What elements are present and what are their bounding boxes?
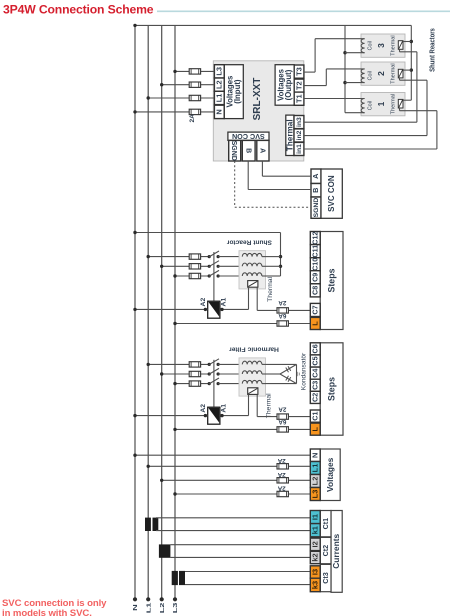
svg-text:L3: L3 — [172, 603, 179, 614]
label reactor number 3 — [376, 43, 386, 48]
wire L1 to coil (Shunt Reactor) — [218, 256, 242, 258]
coil of reactor 1 — [361, 99, 365, 113]
label Thermal Shunt Reactor — [267, 276, 274, 301]
wire step phase L2 (Shunt Reactor) — [160, 265, 209, 268]
svg-text:in3: in3 — [296, 117, 303, 127]
svg-text:Thermal: Thermal — [390, 63, 396, 84]
svg-text:2A: 2A — [277, 471, 285, 478]
svg-text:2A: 2A — [277, 485, 285, 492]
label 2A input fuse — [189, 114, 196, 123]
wire star collector vertical — [344, 25, 346, 112]
terminal I1 — [310, 511, 320, 524]
svg-text:A2: A2 — [200, 298, 207, 307]
svg-text:2: 2 — [376, 71, 386, 76]
label A2 (Harmonic Filter) — [200, 404, 207, 413]
wire step phase L3 (Shunt Reactor) — [173, 274, 209, 277]
label A1 (Shunt Reactor) — [220, 298, 227, 307]
wire voltage L2 — [160, 479, 310, 482]
CT1 on bus L1 — [145, 518, 158, 531]
bus L2 (vertical) — [161, 25, 163, 600]
label Thermal reactor 2 — [390, 63, 396, 84]
fuse step L2 (Shunt Reactor) — [189, 264, 200, 269]
wire I3 — [185, 571, 310, 573]
CT3 on bus L3 — [172, 571, 185, 585]
wire coil3 exit to star — [345, 52, 365, 54]
svg-text:L1: L1 — [145, 602, 152, 614]
svg-text:C10: C10 — [311, 258, 320, 271]
svg-text:T1: T1 — [294, 94, 303, 103]
wire B to external — [248, 161, 311, 190]
capacitor plates lower — [286, 376, 291, 382]
bus N (vertical) — [134, 25, 136, 600]
label A2 (Shunt Reactor) — [200, 298, 207, 307]
fuse voltage L3 — [277, 491, 288, 496]
thermal switch reactor 2 — [398, 69, 403, 78]
switch pole L2 (Harmonic Filter) — [208, 368, 220, 375]
svg-text:N: N — [215, 109, 224, 114]
svg-text:SGND: SGND — [313, 198, 320, 218]
box Steps strip lower — [320, 343, 343, 435]
svg-text:Ct1: Ct1 — [321, 518, 330, 530]
svg-text:N: N — [311, 453, 320, 458]
svg-text:L1: L1 — [311, 464, 320, 473]
fuse step L2 (Harmonic Filter) — [189, 371, 200, 376]
wire L3 to coil (Harmonic Filter) — [218, 383, 242, 385]
terminal k1 — [310, 524, 320, 537]
terminals Steps C6 C5 C4 C3 C2 — [310, 343, 320, 404]
op-unit SRL-XXT body — [213, 61, 303, 161]
wire L3 to L terminal (Shunt Reactor) — [173, 322, 310, 325]
wire reactor row 3 to star — [266, 275, 281, 277]
svg-text:k1: k1 — [311, 526, 320, 534]
svg-text:2A: 2A — [278, 299, 286, 306]
junction star coil2 — [343, 81, 346, 84]
wire reactor row 2 to star — [266, 265, 281, 267]
svg-text:2A: 2A — [277, 457, 285, 464]
svg-text:SGND: SGND — [230, 141, 237, 161]
switch pole L2 (Shunt Reactor) — [208, 261, 220, 268]
svg-text:Shunt Reactors: Shunt Reactors — [429, 28, 437, 72]
terminals Steps C12 C11 C10 C9 C8 — [310, 232, 320, 297]
wire T1 to coil1 — [304, 98, 365, 100]
svg-text:L2: L2 — [159, 603, 166, 614]
wire thermal1 pin to in terminal — [400, 108, 437, 149]
wire N to A2 (Harmonic Filter) — [133, 414, 207, 417]
wire L3 to coil (Shunt Reactor) — [218, 275, 242, 277]
wire I2 — [170, 544, 310, 546]
svg-text:C12: C12 — [311, 232, 320, 245]
box Ct2 — [320, 537, 331, 563]
coil Harmonic Filter row 3 — [242, 380, 265, 383]
thermal left pin (Harmonic Filter) — [248, 394, 250, 415]
wire N to A2 (Shunt Reactor) — [133, 308, 207, 311]
wire k2 — [170, 556, 310, 558]
label SRL-XXT — [252, 78, 263, 121]
svg-text:Thermal: Thermal — [286, 119, 295, 151]
bus L2 end dot — [160, 597, 164, 601]
label Shunt Reactor — [226, 238, 271, 245]
svg-text:(Input): (Input) — [233, 79, 242, 104]
fuse step L1 (Harmonic Filter) — [189, 362, 200, 367]
svg-text:in models with SVC.: in models with SVC. — [2, 608, 92, 616]
svg-text:T3: T3 — [294, 67, 303, 76]
wire star vertical section2 — [279, 233, 282, 277]
svg-text:L3: L3 — [311, 490, 320, 499]
svg-text:in1: in1 — [296, 144, 303, 154]
svg-text:A1: A1 — [220, 404, 227, 413]
contactor coil box (Shunt Reactor) — [208, 301, 220, 318]
box SVC CON external — [321, 169, 342, 218]
svg-text:Thermal: Thermal — [265, 393, 272, 418]
label bus L2 — [159, 603, 166, 614]
coil of reactor 3 — [361, 39, 365, 53]
bus L1 (vertical) — [147, 25, 149, 600]
terminals Thermal in3 in2 in1 — [294, 116, 304, 156]
wire A1 to thermal left pin (Harmonic Filter) — [220, 414, 249, 417]
wire I1 — [156, 517, 310, 519]
block body Shunt Reactor — [239, 251, 266, 289]
terminal C1 — [310, 410, 320, 422]
label bus L1 — [145, 602, 152, 614]
label 2A voltage L1 — [277, 457, 285, 464]
wire voltage N — [133, 454, 310, 457]
svg-text:A1: A1 — [220, 298, 227, 307]
svg-text:C4: C4 — [311, 369, 320, 378]
svg-text:L2: L2 — [311, 477, 320, 486]
contactor coil box (Harmonic Filter) — [208, 407, 220, 424]
label Coil 3 — [368, 41, 374, 50]
svg-text:B: B — [311, 188, 320, 193]
svg-text:C9: C9 — [311, 273, 320, 282]
label Shunt Reactors — [429, 28, 437, 72]
svg-text:L2: L2 — [215, 80, 224, 89]
fuse step L3 (Shunt Reactor) — [189, 273, 200, 278]
switch pole L3 (Shunt Reactor) — [208, 270, 220, 277]
wire filter bottom to capacitor — [266, 383, 297, 385]
coil Harmonic Filter row 1 — [242, 361, 265, 364]
label 2A step (Harmonic Filter) — [278, 405, 286, 412]
wire input L2 — [160, 83, 214, 86]
footnote SVC line1 — [2, 598, 107, 609]
box Ct1 — [320, 511, 331, 537]
junction star coil3 — [343, 51, 346, 54]
footnote SVC line2 — [2, 608, 92, 616]
wire thermal1 to common — [403, 99, 411, 101]
label box Thermal (inputs) — [286, 115, 295, 155]
svg-text:Thermal: Thermal — [390, 35, 396, 56]
coil Shunt Reactor row 2 — [242, 263, 265, 266]
terminal B internal — [242, 140, 255, 161]
label 6A step (Shunt Reactor) — [278, 312, 286, 319]
terminal A internal — [257, 140, 269, 161]
wire input L1 — [147, 96, 215, 99]
svg-text:N: N — [132, 604, 139, 611]
terminal SGND internal — [229, 140, 241, 161]
thermal left pin (Shunt Reactor) — [248, 287, 250, 309]
label Coil 1 — [368, 101, 374, 110]
terminal C7 — [310, 303, 320, 316]
svg-text:3P4W Connection Scheme: 3P4W Connection Scheme — [3, 3, 154, 17]
label Kondansator — [300, 352, 307, 390]
junction thermal2 common — [410, 68, 413, 71]
label Coil 2 — [368, 71, 374, 80]
svg-text:in2: in2 — [296, 130, 303, 140]
thermal switch reactor 1 — [398, 99, 403, 108]
box Currents strip — [331, 511, 342, 593]
svg-text:SVC CON: SVC CON — [327, 175, 336, 212]
svg-text:C5: C5 — [311, 356, 320, 365]
label Thermal Harmonic Filter — [265, 393, 272, 418]
wire voltage L3 — [173, 492, 310, 495]
capacitor tap marks — [298, 372, 300, 376]
label 2A voltage L2 — [277, 471, 285, 478]
coil of reactor 2 — [361, 69, 365, 83]
shunt reactor block 2 body — [361, 62, 405, 85]
terminal SGND external — [311, 197, 321, 218]
coil Shunt Reactor row 3 — [242, 273, 265, 276]
wire coil2 exit to star — [345, 82, 365, 84]
svg-text:Coil: Coil — [368, 71, 374, 80]
svg-text:SRL-XXT: SRL-XXT — [252, 78, 263, 121]
fuse step L1 (Shunt Reactor) — [189, 254, 200, 259]
fuse input L3 — [189, 69, 200, 74]
svg-text:Ct3: Ct3 — [321, 572, 330, 584]
svg-text:T2: T2 — [294, 81, 303, 90]
box Steps strip upper — [320, 232, 343, 330]
shunt reactor block 3 body — [361, 34, 405, 57]
wire L2 to coil (Shunt Reactor) — [218, 265, 242, 267]
wire coil1 exit to star — [345, 112, 365, 114]
fuse voltage L2 — [277, 478, 288, 483]
thermal switch reactor 3 — [398, 41, 403, 50]
terminal k2 — [310, 551, 320, 563]
terminal L3 voltage — [310, 488, 320, 501]
svg-text:C11: C11 — [311, 245, 320, 258]
svg-text:6A: 6A — [278, 418, 286, 425]
svg-text:6A: 6A — [278, 312, 286, 319]
svg-text:Steps: Steps — [327, 377, 337, 401]
svg-text:SVC CON: SVC CON — [232, 132, 265, 141]
wire step phase L2 (Harmonic Filter) — [160, 372, 209, 375]
svg-text:Coil: Coil — [368, 41, 374, 50]
thermal switch Shunt Reactor — [248, 281, 258, 288]
title text — [3, 3, 154, 17]
terminal L upper steps — [310, 317, 320, 329]
fuse voltage L1 — [277, 464, 288, 469]
label bus L3 — [172, 603, 179, 614]
label Thermal reactor 3 — [390, 35, 396, 56]
wire input L3 — [173, 70, 214, 73]
label Thermal reactor 1 — [390, 94, 396, 115]
thermal right pin (Shunt Reactor) — [256, 287, 258, 310]
wire star N horizontal section2 — [133, 231, 280, 234]
junction thermal3 common — [410, 40, 413, 43]
wire filter top to capacitor — [266, 363, 297, 365]
terminal I3 — [310, 566, 320, 578]
svg-text:C7: C7 — [311, 305, 320, 314]
bus L3 (vertical) — [174, 25, 176, 600]
header rule line — [157, 10, 450, 12]
svg-text:I1: I1 — [311, 514, 320, 520]
label bus N — [132, 604, 139, 611]
svg-text:C6: C6 — [311, 344, 320, 353]
wire A1 to thermal left pin (Shunt Reactor) — [220, 308, 249, 311]
wire A to external — [262, 161, 311, 176]
terminal B external — [311, 184, 321, 198]
svg-text:Thermal: Thermal — [267, 276, 274, 301]
wire k1 — [156, 530, 310, 532]
svg-text:A: A — [311, 173, 320, 179]
switch linkage (Shunt Reactor) — [213, 252, 215, 301]
terminal A external — [311, 169, 321, 184]
terminal L2 voltage — [310, 475, 320, 488]
wire L1 to coil (Harmonic Filter) — [218, 363, 242, 365]
bus L3 end dot — [173, 597, 177, 601]
switch pole L1 (Harmonic Filter) — [208, 359, 220, 366]
block body Harmonic Filter — [239, 358, 266, 396]
wire input N — [133, 110, 214, 113]
wire in3 horizontal — [304, 121, 417, 123]
fuse step L3 (Harmonic Filter) — [189, 381, 200, 386]
svg-text:Voltages: Voltages — [325, 457, 335, 492]
svg-text:Thermal: Thermal — [390, 94, 396, 115]
svg-text:A: A — [259, 148, 266, 153]
label 6A step (Harmonic Filter) — [278, 418, 286, 425]
wire thermal to step terminal (Shunt Reactor) — [257, 309, 310, 311]
svg-text:2A: 2A — [189, 114, 196, 123]
wire filter mid to capacitor — [266, 373, 281, 375]
svg-text:C8: C8 — [311, 286, 320, 295]
svg-text:(Output): (Output) — [284, 69, 293, 100]
terminal N voltage — [310, 449, 320, 462]
fuse input L2 — [189, 82, 200, 87]
label reactor number 1 — [376, 101, 386, 106]
bus L1 end dot — [146, 597, 150, 601]
box Ct3 — [320, 564, 331, 591]
svg-text:Harmonic Filter: Harmonic Filter — [229, 346, 279, 353]
svg-text:C1: C1 — [311, 411, 320, 420]
terminal k3 — [310, 578, 320, 592]
terminal L1 voltage — [310, 462, 320, 475]
junction N top — [133, 24, 136, 27]
fuse 6A step (Harmonic Filter) — [277, 427, 288, 432]
wire L3 to L terminal (Harmonic Filter) — [173, 428, 310, 431]
fuse 2A step (Shunt Reactor) — [277, 308, 288, 313]
svg-text:I2: I2 — [311, 541, 320, 547]
svg-text:Shunt Reactor: Shunt Reactor — [226, 238, 271, 245]
wire thermal2 pin to in terminal — [400, 78, 428, 136]
wire k3 — [185, 584, 310, 586]
wire in1 horizontal — [304, 148, 437, 150]
terminals Voltages Output T3 T2 T1 — [294, 65, 304, 105]
svg-text:C3: C3 — [311, 381, 320, 390]
svg-text:B: B — [244, 148, 251, 153]
fuse 2A step (Harmonic Filter) — [277, 414, 288, 419]
switch linkage (Harmonic Filter) — [213, 360, 215, 407]
svg-text:Currents: Currents — [331, 534, 341, 569]
wire T2 to coil2 — [304, 69, 365, 86]
svg-text:k2: k2 — [311, 553, 320, 561]
thermal right pin (Harmonic Filter) — [256, 394, 258, 416]
svg-text:C2: C2 — [311, 393, 320, 402]
wire voltage L1 — [147, 465, 311, 468]
capacitor triangle — [280, 364, 297, 383]
shunt reactor block 1 body — [361, 93, 405, 116]
wire thermal to step terminal (Harmonic Filter) — [257, 416, 310, 418]
CT2 on bus L2 — [159, 544, 171, 557]
label box SVC CON internal header — [228, 132, 269, 141]
svg-text:Coil: Coil — [368, 101, 374, 110]
label 2A voltage L3 — [277, 485, 285, 492]
switch pole L3 (Harmonic Filter) — [208, 378, 220, 385]
wire thermal common vertical — [410, 25, 412, 100]
terminal L lower steps — [310, 423, 320, 435]
label box Voltages (Input) — [224, 65, 243, 119]
wire reactor row 1 to star — [266, 256, 281, 258]
fuse 6A step (Shunt Reactor) — [277, 321, 288, 326]
terminals Voltages Input L3 L2 L1 N — [214, 65, 224, 119]
wire thermal3 pin to in terminal — [400, 49, 417, 122]
wire N top horizontal — [135, 24, 411, 26]
coil Shunt Reactor row 1 — [242, 253, 265, 256]
svg-text:L: L — [311, 321, 320, 326]
svg-text:A2: A2 — [200, 404, 207, 413]
terminal I2 — [310, 538, 320, 551]
svg-text:Steps: Steps — [327, 268, 337, 292]
wire in2 horizontal — [304, 135, 427, 137]
svg-text:L: L — [311, 426, 320, 431]
bus N end dot — [133, 597, 137, 601]
svg-text:3: 3 — [376, 43, 386, 48]
wire thermal2 to common — [403, 69, 411, 71]
svg-text:1: 1 — [376, 101, 386, 106]
wire step phase L3 (Harmonic Filter) — [173, 382, 209, 385]
wire T3 to coil3 — [304, 39, 365, 72]
capacitor plates upper — [286, 366, 291, 372]
wire thermal3 to common — [403, 41, 411, 43]
label box Voltages (Output) — [275, 65, 294, 106]
wire step phase L1 (Shunt Reactor) — [147, 255, 210, 258]
switch pole L1 (Shunt Reactor) — [208, 251, 220, 258]
svg-text:I3: I3 — [311, 569, 320, 575]
fuse input L1 — [189, 95, 200, 100]
label Harmonic Filter — [229, 346, 279, 353]
wire step phase L1 (Harmonic Filter) — [147, 363, 210, 366]
svg-text:k3: k3 — [311, 581, 320, 589]
fuse input N — [189, 109, 200, 114]
svg-text:2A: 2A — [278, 405, 286, 412]
label A1 (Harmonic Filter) — [220, 404, 227, 413]
svg-text:L1: L1 — [215, 94, 224, 103]
coil Harmonic Filter row 2 — [242, 371, 265, 374]
label 2A step (Shunt Reactor) — [278, 299, 286, 306]
svg-text:Ct2: Ct2 — [321, 545, 330, 557]
box Voltages strip — [320, 449, 340, 501]
thermal switch Harmonic Filter — [248, 388, 258, 395]
wire L2 to coil (Harmonic Filter) — [218, 373, 242, 375]
svg-text:Kondansatör: Kondansatör — [300, 352, 307, 390]
wire SGND dashed — [235, 161, 311, 207]
svg-text:L3: L3 — [215, 67, 224, 76]
svg-text:SVC connection is only: SVC connection is only — [2, 598, 107, 609]
label reactor number 2 — [376, 71, 386, 76]
